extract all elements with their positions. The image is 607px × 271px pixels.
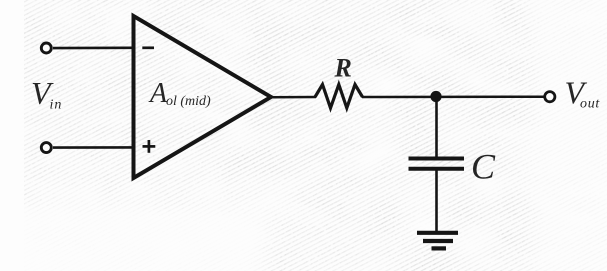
- terminal: output: [545, 92, 555, 102]
- V_out label: [565, 75, 601, 112]
- ground: [417, 233, 458, 249]
- wire: [53, 46, 133, 49]
- V_in label: [31, 75, 62, 113]
- svg-text:out: out: [580, 97, 600, 112]
- capacitor C: [409, 159, 465, 169]
- svg-text:in: in: [50, 98, 63, 113]
- wire: [435, 170, 438, 231]
- svg-text:A: A: [148, 78, 168, 109]
- terminal: inverting input: [41, 43, 51, 53]
- op-amp inverting pin label (minus): [142, 46, 154, 49]
- wire: [435, 97, 438, 159]
- svg-text:C: C: [471, 147, 496, 187]
- wire: [269, 96, 316, 99]
- op-amp A_ol(mid): [134, 16, 272, 178]
- svg-text:ol (mid): ol (mid): [166, 94, 211, 109]
- svg-text:R: R: [334, 54, 352, 83]
- wire: [362, 95, 545, 98]
- op-amp non-inverting pin label (plus): [143, 140, 156, 153]
- op-amp gain label A_ol(mid): [148, 78, 211, 109]
- node junction: [430, 91, 441, 102]
- terminal: non-inverting input: [41, 143, 51, 153]
- resistor R: [315, 85, 363, 109]
- wire: [53, 146, 133, 149]
